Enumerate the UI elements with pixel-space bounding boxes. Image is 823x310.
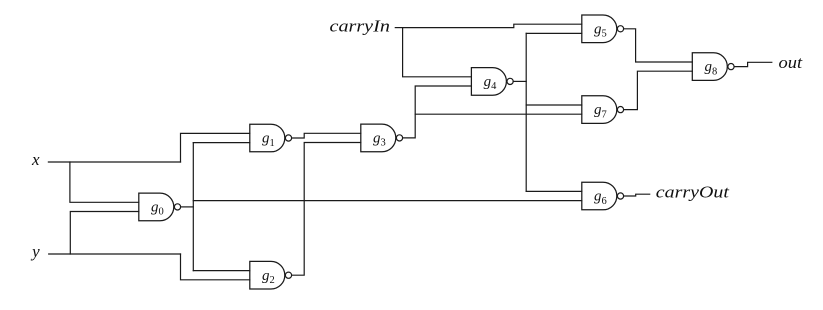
wire g0 net to g2 upper input — [193, 270, 250, 272]
nand gate G4 — [471, 68, 513, 96]
nand gate G3 — [361, 124, 403, 152]
wire g3 output riser to g4 lower input — [403, 86, 472, 138]
wire x to g0 upper input — [70, 162, 139, 202]
wire g4 net vertical column — [525, 33, 527, 191]
wire y to g0 lower input — [70, 212, 139, 255]
nand gate G7 — [582, 96, 624, 124]
nand gate G0 — [139, 193, 181, 221]
svg-text:out: out — [779, 53, 804, 72]
wire g0 net to g1 lower input — [193, 142, 250, 144]
nand gate G5 — [582, 15, 624, 43]
svg-text:x: x — [31, 150, 40, 169]
wire g4 output to distribution column — [513, 80, 526, 82]
nand gate G1 — [250, 124, 292, 152]
svg-text:y: y — [30, 242, 40, 261]
svg-text:carryOut: carryOut — [656, 183, 731, 202]
wire g4 net to g5 lower input — [526, 32, 582, 34]
node y input label lead wire — [49, 253, 181, 255]
svg-text:carryIn: carryIn — [330, 16, 390, 35]
wire g0 net vertical column — [192, 143, 194, 271]
wire g0 net long run to g6 lower input — [193, 200, 582, 202]
wire x riser to g1 upper input — [181, 133, 250, 162]
nand gate G6 — [582, 182, 624, 210]
wire g7 output to g8 lower input — [624, 71, 693, 109]
node x input label lead wire — [48, 161, 180, 163]
wire y drop to g2 lower input — [181, 254, 250, 280]
wire g6 output lead to carryOut label — [624, 194, 650, 196]
wire g4 net to g6 upper input — [526, 190, 582, 192]
wire g1 output jog to g3 upper input — [292, 133, 361, 138]
wire carryIn run with jog to g5 upper input — [403, 24, 582, 27]
node carryIn label lead wire — [395, 27, 402, 29]
nand gate G8 — [692, 53, 734, 81]
nand gate G2 — [250, 261, 292, 289]
wire g2 output riser to g3 lower input — [292, 143, 361, 276]
wire g0 output to distribution column — [181, 206, 194, 208]
wire g5 output to g8 upper input — [624, 29, 693, 62]
wire carryIn riser to g4 upper input — [403, 28, 472, 77]
wire g4 net branch to g7 upper input — [526, 104, 582, 106]
wire g8 output lead to out label — [734, 62, 772, 66]
wire g3 net branch to g7 lower input — [415, 113, 582, 115]
